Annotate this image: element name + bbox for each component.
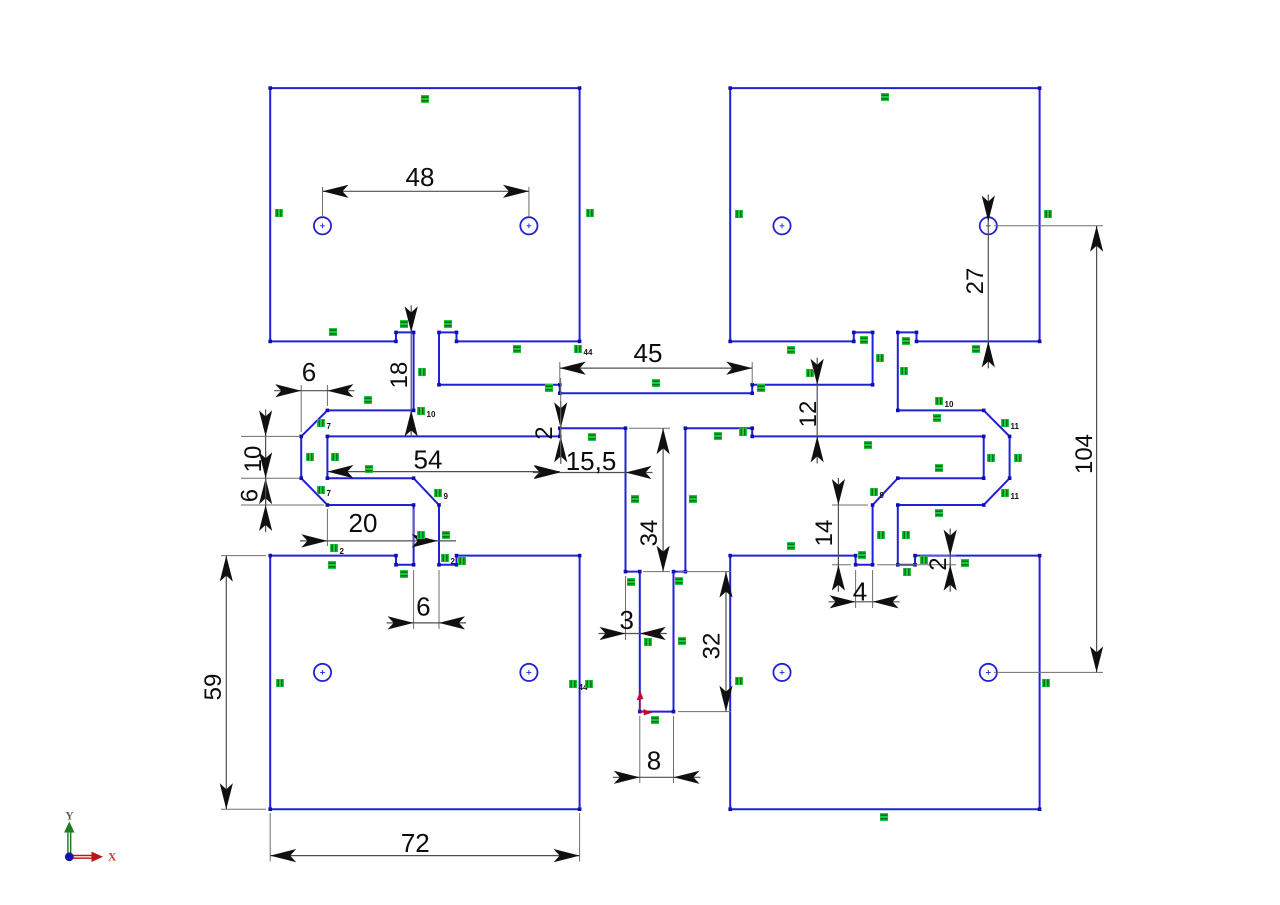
svg-text:4: 4 xyxy=(853,577,867,607)
dimension 104 extension lines xyxy=(994,226,1103,673)
svg-text:10: 10 xyxy=(945,400,954,409)
constraint icons (green) xyxy=(275,93,1052,821)
svg-text:6: 6 xyxy=(416,592,430,622)
dimension 6 (lower chamfer height) xyxy=(237,451,273,532)
dimension 18 (left slot depth) xyxy=(386,305,418,437)
hole C6 bottom-left rect right xyxy=(520,664,537,681)
svg-text:12: 12 xyxy=(795,401,822,428)
dimension 10/6 extension lines xyxy=(241,436,324,505)
svg-text:9: 9 xyxy=(444,492,449,501)
dimension 72 (bottom-left rect width) xyxy=(270,813,579,862)
svg-text:34: 34 xyxy=(636,520,663,547)
dimension 54 (left arm length) xyxy=(327,445,559,479)
svg-text:104: 104 xyxy=(1071,434,1098,474)
svg-text:11: 11 xyxy=(1011,422,1020,431)
svg-text:6: 6 xyxy=(237,489,264,502)
svg-text:54: 54 xyxy=(414,445,443,475)
hole C5 bottom-left rect left xyxy=(314,664,331,681)
part outline (closed sketch profile) xyxy=(270,88,1039,809)
svg-text:Y: Y xyxy=(65,811,74,823)
svg-text:59: 59 xyxy=(200,674,227,701)
svg-text:3: 3 xyxy=(619,605,633,635)
dimension 12 (right finger width) xyxy=(795,358,824,464)
hole C2 top-left rect right xyxy=(520,217,537,234)
svg-text:72: 72 xyxy=(401,828,430,858)
svg-text:45: 45 xyxy=(634,338,663,368)
svg-text:48: 48 xyxy=(406,162,435,192)
dimension 15,5 (step to channel) xyxy=(533,446,653,479)
svg-text:9: 9 xyxy=(880,491,885,500)
svg-text:15,5: 15,5 xyxy=(566,446,617,476)
svg-text:8: 8 xyxy=(647,746,661,776)
svg-text:14: 14 xyxy=(811,520,838,547)
sketch origin (red axes) xyxy=(638,693,651,715)
svg-text:11: 11 xyxy=(1011,492,1020,501)
view axes icon xyxy=(64,811,117,864)
hole C7 bottom-right rect left xyxy=(773,664,790,681)
hole C1 top-left rect left xyxy=(314,217,331,234)
svg-text:18: 18 xyxy=(386,362,413,389)
dimension 27 center tick xyxy=(987,221,989,231)
dimension 32 (channel depth) xyxy=(678,572,733,712)
dimension 8 (channel width) xyxy=(613,716,701,784)
svg-text:20: 20 xyxy=(349,508,378,538)
dimension 27 (hole to edge, top-right) xyxy=(962,195,995,369)
svg-text:10: 10 xyxy=(427,410,436,419)
hole C4 top-right rect right xyxy=(980,217,997,234)
svg-text:6: 6 xyxy=(302,357,316,387)
dimension 4 (right tab width) xyxy=(829,570,900,608)
dimension 20 (left lower arm) xyxy=(300,508,456,548)
dimension 2 (left step) xyxy=(531,401,567,463)
svg-text:2: 2 xyxy=(925,557,952,570)
svg-text:X: X xyxy=(108,852,117,864)
svg-text:2: 2 xyxy=(451,557,456,566)
dimension 6 (top chamfer width) xyxy=(274,357,354,432)
svg-text:7: 7 xyxy=(327,422,332,431)
dimension 2 left extension line xyxy=(560,378,562,464)
dimension 10 (left chamfer flat) xyxy=(240,409,272,505)
svg-text:27: 27 xyxy=(962,268,989,295)
dimension 3 (channel wall offset) xyxy=(599,576,667,640)
dimension 59 (bottom-left rect height) xyxy=(200,556,266,810)
svg-text:2: 2 xyxy=(340,547,345,556)
dimension 14 (right arm height) xyxy=(811,478,868,592)
profile vertex points xyxy=(268,86,1041,811)
dimension 34 (channel upper depth) xyxy=(629,428,670,571)
svg-text:44: 44 xyxy=(584,348,593,357)
hole C3 top-right rect left xyxy=(773,217,790,234)
dimension 6 (lower slot width) xyxy=(387,570,466,630)
dimension 2 (right tab depth) xyxy=(877,529,957,592)
dimension 104 (hole to hole, right) xyxy=(1071,226,1103,673)
hole C8 bottom-right rect right xyxy=(980,664,997,681)
dimension 45 (center top span) xyxy=(560,338,752,384)
dimension 48 (top-left hole spacing) xyxy=(323,162,529,217)
svg-text:32: 32 xyxy=(699,633,726,660)
svg-text:7: 7 xyxy=(327,489,332,498)
svg-text:2: 2 xyxy=(531,426,558,439)
